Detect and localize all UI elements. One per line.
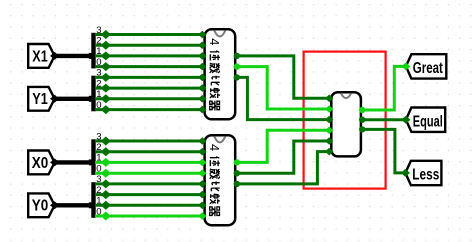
comparator U2 (4位数比较器) (205, 135, 236, 225)
wires X0 bits (0011) (95, 141, 202, 173)
input pin X0 (28, 151, 59, 175)
U2 output dots (234, 159, 240, 187)
wire Y1 bus (55, 97, 94, 101)
svg-text:Y1: Y1 (32, 91, 48, 108)
splitter S1 (X1) (89, 25, 102, 69)
splitter S4 (Y0) (89, 174, 102, 218)
wires Y1 bits (all 0, dark green) (95, 77, 202, 109)
wire U1 out Less (0) (237, 77, 331, 119)
junction diamonds splitter S4 (101, 179, 111, 220)
output pin Great (401, 54, 446, 78)
junction diamonds splitter S2 (101, 73, 111, 114)
wire X0 bus (55, 160, 94, 164)
comparator U1 (4位数比较器) (205, 29, 236, 119)
wire U1 out Equal (1) (237, 67, 331, 109)
U2 input pin stubs (198, 137, 206, 220)
wire U2 out Less (0) (237, 152, 331, 184)
input pin X1 (28, 44, 59, 68)
wire U1 out Great (0) (237, 56, 331, 98)
svg-text:X1: X1 (32, 48, 48, 65)
input pin Y0 (28, 193, 59, 217)
output pin Equal (401, 108, 445, 132)
U3 input pin stubs (325, 95, 333, 156)
wires X1 bits (all 0, dark green) (95, 35, 202, 67)
U1 output dots (234, 53, 240, 81)
wire U2 out Equal (0) (237, 141, 331, 173)
output pin Less (401, 161, 442, 185)
wire U2 out Great (1) (237, 130, 331, 162)
splitter S2 (Y1) (89, 68, 102, 112)
wire U3 out Great (1) (362, 66, 406, 110)
subcircuit U3 (331, 92, 361, 156)
red highlight rectangle (304, 52, 386, 189)
junction diamonds splitter S1 (101, 30, 111, 71)
wire X1 bus (55, 54, 94, 58)
wires Y0 bits (0001) (95, 184, 202, 216)
svg-text:Great: Great (413, 60, 443, 77)
U1 input pin stubs (198, 31, 206, 114)
svg-text:X0: X0 (32, 155, 49, 172)
wire Y0 bus (55, 203, 94, 207)
splitter S3 (X0) (89, 131, 102, 175)
svg-text:Y0: Y0 (32, 198, 49, 215)
input pin Y1 (28, 87, 59, 111)
wire U3 out Equal (0) (362, 118, 406, 121)
svg-text:Equal: Equal (413, 113, 443, 130)
U3 output dots (359, 107, 365, 133)
junction diamonds splitter S3 (101, 137, 111, 178)
wire U3 out Less (0) (362, 129, 405, 173)
svg-text:Less: Less (412, 166, 439, 183)
